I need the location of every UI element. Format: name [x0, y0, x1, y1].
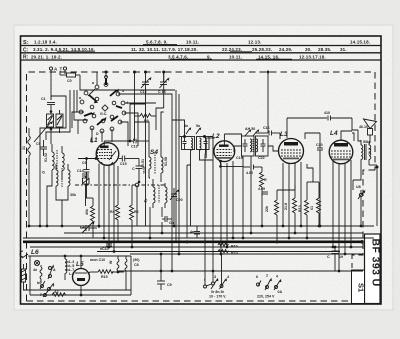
svg-text:5.6.7.8. 9.: 5.6.7.8. 9.	[146, 40, 168, 45]
pilot lamp	[33, 260, 40, 272]
chassis dashed border bottom	[27, 300, 349, 302]
nested routing wires top-left	[40, 75, 175, 226]
svg-text:U8: U8	[356, 185, 361, 189]
routing wires middle-top	[92, 72, 191, 271]
R10 pair small resistors	[218, 243, 238, 255]
capacitor in right box	[205, 137, 207, 142]
wires right side	[353, 130, 377, 226]
switch U8 top right	[356, 185, 365, 226]
parts table row S	[23, 40, 370, 47]
svg-text:9.: 9.	[207, 54, 211, 59]
resistor R15	[90, 270, 124, 279]
L3/L4 area wires	[234, 72, 358, 271]
resistor C0	[60, 70, 80, 83]
svg-text:4.00: 4.00	[246, 171, 253, 175]
L1 plate line with cap C13	[104, 139, 149, 149]
parts table lines	[21, 46, 382, 61]
svg-text:C19: C19	[236, 156, 243, 160]
svg-text:40k: 40k	[85, 209, 89, 215]
svg-text:4n: 4n	[33, 268, 37, 272]
svg-text:4: 4	[122, 89, 124, 93]
coil in right box	[200, 138, 202, 150]
svg-text:22k: 22k	[265, 206, 269, 212]
svg-text:14.15.18.: 14.15.18.	[350, 40, 370, 45]
svg-text:R: R	[264, 178, 267, 182]
capacitor Cb	[162, 207, 175, 225]
flexible lead squiggle	[28, 136, 31, 156]
svg-text:C14: C14	[77, 169, 84, 173]
switch b0	[37, 281, 45, 289]
S1 box	[352, 270, 366, 304]
tap coil column	[65, 256, 74, 280]
svg-text:6: 6	[256, 275, 258, 279]
resistor R13	[298, 182, 309, 238]
svg-text:L.9: L.9	[69, 272, 74, 276]
vertical drops under L1	[86, 164, 115, 252]
svg-text:C0: C0	[67, 79, 72, 83]
svg-text:C13: C13	[131, 145, 138, 149]
svg-text:L6: L6	[31, 249, 39, 256]
box left edge	[29, 256, 31, 295]
svg-text:19: 19	[339, 255, 343, 259]
switch f	[47, 283, 55, 292]
svg-text:1.2.18 3.4.: 1.2.18 3.4.	[34, 40, 57, 45]
svg-text:21.8: 21.8	[284, 203, 288, 210]
resistor R6 vertical	[130, 185, 139, 247]
switch A	[48, 264, 56, 279]
svg-text:28.35.: 28.35.	[318, 47, 331, 52]
wire rail y251.5	[97, 251, 340, 253]
svg-text:46.10: 46.10	[359, 125, 368, 129]
switch contacts ring	[79, 83, 126, 133]
svg-text:0r 8n 8r: 0r 8n 8r	[211, 290, 225, 294]
svg-text:10.11.: 10.11.	[186, 40, 199, 45]
wire rail y226	[30, 225, 374, 227]
svg-text:220, 254 V: 220, 254 V	[257, 295, 275, 299]
capacitor C30	[316, 133, 323, 226]
svg-text:C22: C22	[258, 156, 265, 160]
svg-text:2: 2	[266, 274, 268, 278]
svg-text:C9: C9	[167, 283, 172, 287]
cap C22	[262, 139, 264, 144]
terminal A	[49, 67, 52, 70]
cap 4.09	[258, 187, 268, 194]
svg-text:4.09: 4.09	[258, 187, 265, 191]
wire drop from dashed rail x134	[134, 72, 136, 141]
resistor A2	[45, 290, 80, 296]
wires from switch to left column	[51, 89, 95, 144]
left edge mains box	[22, 264, 26, 290]
svg-text:20.21. 1. 19.2.: 20.21. 1. 19.2.	[31, 54, 62, 59]
svg-text:C1: C1	[41, 97, 46, 101]
outer frame	[21, 36, 382, 304]
svg-text:(90): (90)	[133, 258, 140, 262]
switch P	[40, 291, 48, 297]
svg-text:410: 410	[324, 111, 330, 115]
svg-text:mon C10: mon C10	[90, 258, 105, 262]
capacitor C (1102)	[132, 159, 147, 184]
svg-text:10 - 170 V.: 10 - 170 V.	[209, 295, 226, 299]
trimmer C18	[158, 72, 169, 108]
svg-text:L4: L4	[330, 130, 338, 137]
grid line right with capacitor C15	[119, 156, 139, 167]
svg-text:61: 61	[310, 206, 314, 210]
svg-text:12.13.: 12.13.	[248, 40, 261, 45]
svg-text:C8: C8	[134, 263, 139, 267]
ground bus (thick)	[23, 241, 362, 244]
chassis dashed border top	[27, 72, 376, 301]
resistor 40k vertical	[85, 198, 95, 238]
capacitor 4.00 under IF	[243, 165, 262, 176]
dash-dot shield line	[75, 184, 165, 186]
svg-text:C: C	[132, 167, 135, 171]
svg-text:R10: R10	[231, 245, 238, 249]
cap 4n mid	[190, 226, 200, 238]
chassis dashed border right	[363, 170, 375, 232]
svg-text:C15: C15	[120, 162, 127, 166]
wire rail y290	[23, 289, 131, 291]
svg-text:31.: 31.	[340, 47, 347, 52]
svg-text:C:: C:	[23, 47, 29, 53]
wire rail y295 bottom box	[30, 294, 131, 296]
svg-text:30k: 30k	[70, 193, 76, 197]
svg-text:L5: L5	[76, 261, 84, 268]
svg-text:51.58: 51.58	[164, 157, 168, 166]
coil right of it	[57, 146, 64, 180]
tuning arrow	[34, 122, 51, 142]
C10 cap on rail	[100, 244, 112, 251]
antenna coil with core	[47, 110, 64, 133]
svg-text:31: 31	[22, 146, 26, 150]
svg-text:4: 4	[227, 275, 229, 279]
svg-text:C: C	[327, 255, 330, 259]
left section closing wires	[47, 180, 68, 226]
trimmer arrows on top	[245, 130, 250, 136]
coil L (osc) left	[44, 144, 54, 180]
svg-text:R:: R:	[23, 55, 29, 61]
wires bottom mid verticals	[137, 104, 161, 271]
coil in left box	[191, 138, 193, 150]
capacitor C16	[255, 126, 280, 139]
cap C19	[244, 139, 246, 144]
svg-text:R6: R6	[134, 210, 139, 214]
top dashed rail junction dots	[133, 71, 136, 74]
svg-text:D: D	[96, 132, 99, 136]
capacitor 410 top	[287, 111, 352, 121]
wiper arrows (thick)	[84, 90, 122, 125]
svg-text:3.31. 2. 9.4.5.21. 14.8.10.16: 3.31. 2. 9.4.5.21. 14.8.10.16.	[33, 47, 95, 52]
svg-text:12.13.17.18.: 12.13.17.18.	[299, 54, 326, 59]
svg-text:S1: S1	[357, 283, 366, 292]
svg-text:T: T	[60, 67, 63, 72]
resistor R4 vertical	[110, 166, 120, 241]
wavy resistor left	[40, 267, 42, 279]
svg-text:4: 4	[276, 275, 278, 279]
trimmer C20	[170, 188, 183, 204]
wavy resistors right of L5	[109, 256, 127, 290]
svg-text:5/8: 5/8	[363, 140, 368, 144]
bottom switch group 1	[204, 275, 230, 299]
svg-text:R13: R13	[298, 205, 302, 212]
trimmer C12	[140, 72, 151, 104]
svg-text:30.: 30.	[305, 47, 312, 52]
speaker	[359, 119, 377, 143]
svg-text:C 18: C 18	[158, 90, 166, 94]
svg-text:11. 32. 10.11. 12.7.9. 17.18.2: 11. 32. 10.11. 12.7.9. 17.18.20.	[131, 47, 198, 52]
wire rail y233	[64, 232, 363, 234]
table underline marks	[57, 45, 292, 60]
trimmer C4	[80, 221, 97, 233]
svg-text:31.8: 31.8	[368, 148, 372, 155]
svg-text:C20: C20	[176, 198, 183, 202]
svg-text:S:: S:	[23, 40, 29, 46]
svg-text:25.28.33.: 25.28.33.	[252, 47, 272, 52]
resistor R11	[265, 190, 279, 242]
capacitor C9	[157, 271, 172, 290]
center diamond	[102, 105, 108, 111]
tube L1	[90, 137, 119, 165]
svg-text:4n: 4n	[190, 230, 194, 234]
coil bars	[250, 139, 252, 152]
capacitor C14 + box	[77, 169, 89, 206]
junction dots on rails	[28, 225, 364, 273]
parts table row C	[23, 47, 347, 53]
svg-text:BF 393 U: BF 393 U	[370, 239, 382, 287]
svg-text:5n: 5n	[196, 124, 200, 128]
svg-text:C6: C6	[82, 161, 87, 165]
capacitor C19b bottom right	[327, 247, 343, 271]
svg-text:0A: 0A	[278, 290, 283, 294]
bottom switch group 2	[256, 274, 282, 299]
oscillator coil D pair	[41, 164, 76, 197]
svg-text:W: W	[109, 260, 113, 264]
IF transformer 1 (double box)	[182, 124, 210, 150]
S4 coil column	[141, 148, 168, 182]
resistor under IF vertical	[260, 167, 268, 196]
svg-text:±C10: ±C10	[100, 247, 109, 251]
svg-text:C12: C12	[140, 90, 147, 94]
resistor R12	[284, 190, 297, 233]
resistor R14	[310, 182, 321, 226]
svg-text:S4: S4	[150, 149, 158, 156]
capacitor C1	[41, 97, 55, 112]
L5 cathode drop	[81, 256, 90, 295]
svg-text:L1: L1	[90, 137, 98, 144]
wire rail y256	[30, 255, 131, 257]
svg-text:A: A	[54, 67, 58, 72]
svg-text:R10: R10	[231, 251, 238, 255]
svg-text:C16: C16	[263, 126, 270, 130]
grid line left with capacitor C6	[78, 157, 97, 198]
S7 coil column	[143, 179, 167, 208]
resistor R9	[135, 114, 157, 124]
wire rail y271	[118, 270, 363, 272]
jack L6	[20, 249, 39, 258]
stem up	[105, 78, 107, 85]
page	[14, 25, 393, 310]
routing between L1 and L2	[135, 112, 234, 285]
svg-text:51.02: 51.02	[44, 153, 48, 162]
svg-text:24.29.: 24.29.	[279, 47, 292, 52]
tube L5	[73, 261, 90, 286]
svg-text:14.15. 16.: 14.15. 16.	[258, 54, 280, 59]
wire rail y247	[30, 246, 363, 248]
svg-text:b0: b0	[37, 281, 41, 285]
capacitor C5	[36, 140, 47, 156]
capacitor in left box	[184, 137, 186, 142]
parts table row R	[23, 54, 326, 60]
wire from A down	[50, 70, 52, 100]
svg-text:3.5 4.7.6.: 3.5 4.7.6.	[168, 54, 188, 59]
svg-text:10.11.: 10.11.	[229, 54, 242, 59]
tube L3	[279, 131, 304, 164]
tube L4	[329, 130, 353, 164]
tube L2	[206, 133, 243, 168]
right bank feed wires	[262, 164, 319, 196]
svg-text:R15: R15	[101, 275, 108, 279]
svg-text:3: 3	[214, 275, 216, 279]
svg-text:C30: C30	[316, 143, 323, 147]
svg-text:22.24.23.: 22.24.23.	[222, 47, 242, 52]
BF 393 U box	[365, 234, 382, 304]
svg-text:A: A	[53, 268, 56, 272]
svg-text:G.C.: G.C.	[100, 112, 107, 116]
wire rail y254	[130, 253, 363, 255]
output transformer	[361, 140, 372, 167]
wire rail y238	[23, 237, 374, 239]
